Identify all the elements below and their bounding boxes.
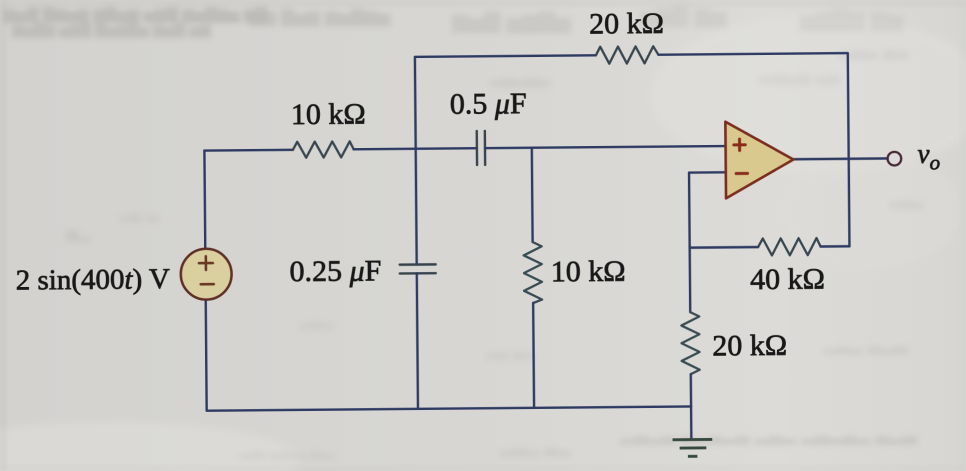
svg-text:10 kΩ: 10 kΩ [291, 98, 366, 132]
svg-text:▆▅▇▆ ▅▆▇ ▇▅▆▇▅ ▆▅▇ ▅▆: ▆▅▇▆ ▅▆▇ ▇▅▆▇▅ ▆▅▇ ▅▆ [11, 21, 212, 38]
svg-text:▂▃▂ ▃▂▃: ▂▃▂ ▃▂▃ [823, 335, 908, 355]
svg-text:▃▄▃: ▃▄▃ [889, 192, 924, 210]
svg-text:▅▆▇▆ ▆▅: ▅▆▇▆ ▆▅ [799, 8, 904, 32]
svg-text:▅▆ ▇▅▆ ▆▅▇▆▅: ▅▆ ▇▅▆ ▆▅▇▆▅ [249, 7, 391, 27]
svg-text:0.25 μF: 0.25 μF [289, 254, 381, 288]
svg-text:2 sin(400t) V: 2 sin(400t) V [16, 263, 170, 296]
svg-text:▃▄ ▃: ▃▄ ▃ [119, 205, 158, 223]
svg-text:20 kΩ: 20 kΩ [712, 329, 787, 363]
svg-text:▃▄▃▄ ▃▄: ▃▄▃▄ ▃▄ [759, 65, 841, 86]
svg-text:▅▂: ▅▂ [65, 225, 91, 242]
svg-text:20 kΩ: 20 kΩ [589, 7, 664, 41]
svg-text:▃▄▃ ▄▃: ▃▄▃ ▄▃ [839, 40, 909, 61]
svg-text:▂▃▂▃ ▃▂▃▂▃ ▂▃▂ ▂▃▂▃▂ ▃▂▃: ▂▃▂▃ ▃▂▃▂▃ ▂▃▂ ▂▃▂▃▂ ▃▂▃ [619, 424, 918, 445]
svg-text:▃▄ ▄▃: ▃▄ ▄▃ [485, 343, 535, 361]
svg-text:▃▄▃▄▃: ▃▄▃▄▃ [489, 70, 550, 88]
svg-text:▆▅▇ ▅▆▇▅: ▆▅▇ ▅▆▇▅ [451, 10, 572, 34]
svg-text:10 kΩ: 10 kΩ [551, 255, 626, 289]
svg-text:40 kΩ: 40 kΩ [750, 263, 825, 297]
svg-text:0.5 μF: 0.5 μF [450, 87, 527, 121]
svg-text:▃▄▃: ▃▄▃ [299, 313, 334, 331]
svg-text:▂▃▂ ▃▂: ▂▃▂ ▃▂ [499, 437, 571, 457]
svg-text:▂▃ ▂▃▂ ▃▂: ▂▃ ▂▃▂ ▃▂ [239, 442, 336, 459]
